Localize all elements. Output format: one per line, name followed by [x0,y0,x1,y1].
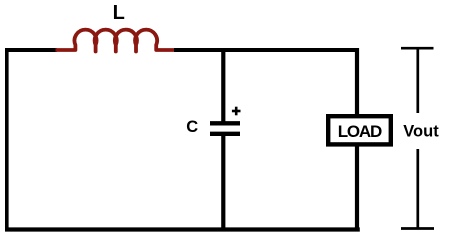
svg-text:C: C [186,118,198,136]
wire load branch upper [355,48,359,116]
wire load branch lower [355,144,359,230]
Vout dimension line upper segment [416,48,419,113]
plus polarity mark [232,107,241,116]
inductor L [56,30,176,52]
Vout dimension bottom bar [401,227,434,230]
wire top-left segment [5,48,57,52]
svg-text:Vout: Vout [403,123,439,141]
capacitor C top plate [210,121,240,125]
wire bottom horizontal [5,227,360,231]
svg-text:L: L [113,2,125,24]
load box [328,116,391,144]
wire capacitor branch lower [221,136,225,231]
wire top-right segment [174,48,359,52]
wire capacitor branch upper [221,48,225,122]
wire left vertical [5,48,9,231]
capacitor C bottom plate [210,132,240,136]
Vout dimension line lower segment [416,149,419,229]
Vout dimension top bar [401,47,434,50]
svg-text:LOAD: LOAD [338,122,382,141]
